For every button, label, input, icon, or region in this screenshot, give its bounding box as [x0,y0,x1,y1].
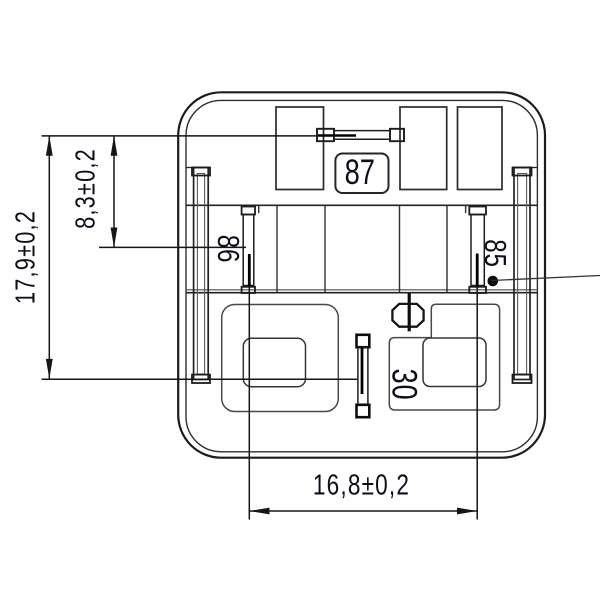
extension line bottom (pin 30 row) [42,378,358,380]
pin 30 blade [361,347,364,394]
left guide slot outer [194,168,209,380]
top row box C [458,107,503,190]
right guide slot bottom cap [513,375,532,383]
top row box B [400,107,447,190]
pin 87 slot left cap [317,129,334,141]
dimension line 17,9 [48,136,50,379]
band stub x465.6 [465,205,467,213]
band top line [186,204,537,206]
relay body outer contour [178,92,545,457]
bottom right cavity inner [423,338,486,387]
right guide slot outer [514,168,530,380]
band divider x325 [324,205,326,293]
pin 86 slot bottom cap [242,287,255,293]
dimension 16,8 arrow left [249,508,269,515]
bottom right cavity outline [389,304,499,410]
dimension 8,3 arrow up [111,136,118,156]
dimension 17,9 arrow up [46,136,53,156]
extension line mid (pin 86 row) [99,246,246,248]
left guide slot bottom cap [192,375,210,383]
pin 87 slot body bottom [334,138,390,140]
pin 85 slot top cap [469,207,486,215]
band divider x399.5 [399,205,401,293]
pin 87 slot body top [334,130,390,132]
band stub x258.7 [258,205,260,213]
band bottom line 1 [186,289,537,291]
extension line top (pin 87 row) [42,135,318,137]
dimension 16,8 arrow right [457,508,477,515]
top row box A [276,107,324,190]
left guide slot step [186,167,194,169]
band divider x277 [276,205,278,293]
dimension line 16,8 [249,510,477,512]
svg-text:86: 86 [211,235,246,263]
svg-text:8,3±0,2: 8,3±0,2 [70,148,101,229]
bottom left cavity inner [243,338,305,386]
dimension 8,3 arrow down [111,228,118,248]
pin 86 slot walls [243,215,254,286]
key phi bar [408,293,411,331]
pin 85 slot walls [471,215,484,286]
left guide slot top cap [192,168,210,176]
dimension 17,9 arrow down [46,359,53,379]
pin 86 blade [248,254,251,287]
right guide slot step [532,167,538,169]
band bottom line 2 [186,292,537,294]
pin 30 slot bottom cap [357,405,370,417]
left guide slot inner [197,174,204,375]
svg-text:87: 87 [345,153,375,192]
pin 85 slot bottom cap [469,287,486,293]
svg-text:30: 30 [384,369,423,401]
band divider x447 [446,205,448,293]
extension line 16,8 right [476,286,478,520]
svg-text:85: 85 [478,239,513,267]
pin 30 slot walls [358,347,368,405]
key phi symbol body [392,304,423,327]
right guide slot top cap [513,168,532,176]
pin 86 slot top cap [242,207,255,215]
extension line 16,8 left [248,286,250,520]
right guide slot inner [518,174,527,375]
svg-text:16,8±0,2: 16,8±0,2 [313,468,410,501]
pin 85 blade [476,254,479,287]
svg-text:17,9±0,2: 17,9±0,2 [10,210,41,304]
bottom left cavity outer [222,305,339,412]
relay body inner contour [186,100,537,451]
pin 87 slot right cap [390,129,404,141]
leader line from dot to right edge [492,276,600,281]
dimension line 8,3 [113,136,115,248]
pin 87 blade [318,134,356,137]
label 87 box [335,154,388,194]
pin 30 slot top cap [357,335,370,347]
node 85 coil dot [488,276,499,287]
